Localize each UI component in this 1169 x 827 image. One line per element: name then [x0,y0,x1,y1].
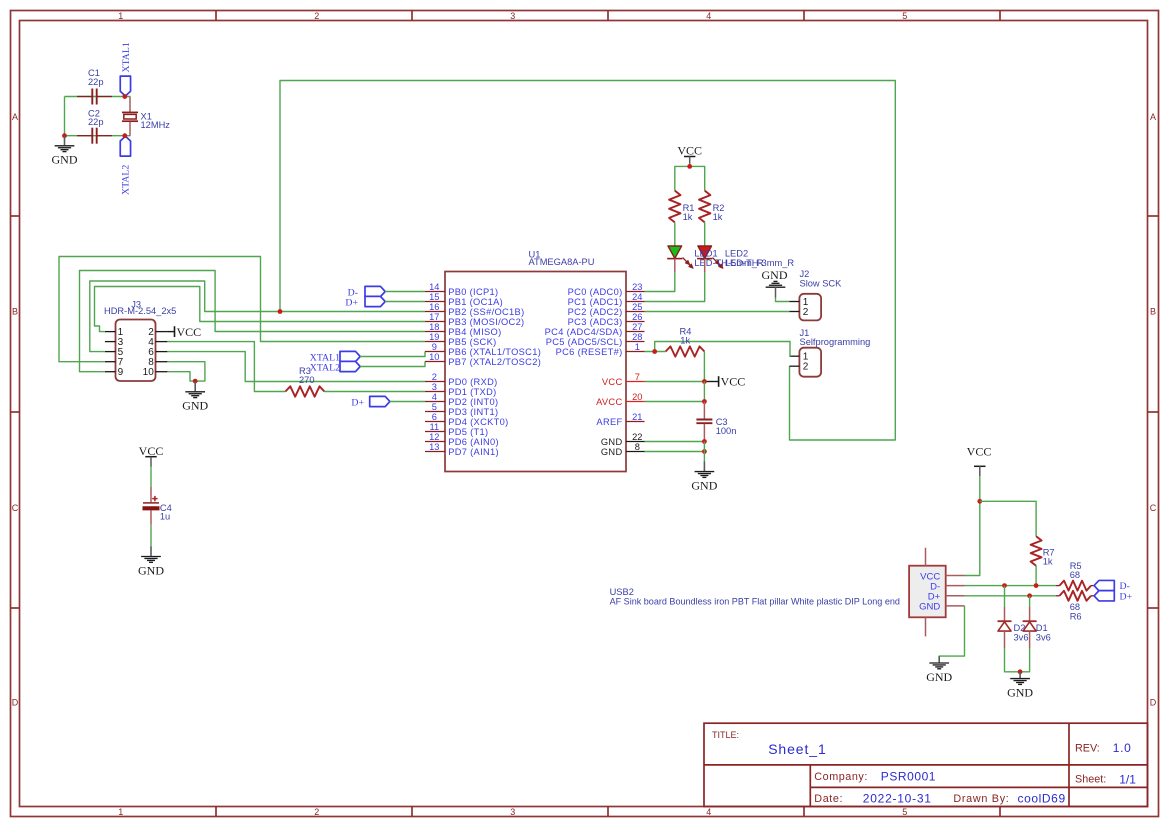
svg-text:PD4 (XCKT0): PD4 (XCKT0) [448,417,508,427]
label LED1 LED2 overlapped values [694,249,794,269]
svg-text:1: 1 [635,342,640,352]
pin 3 PD1 [425,382,497,397]
svg-text:13: 13 [429,442,439,452]
svg-text:27: 27 [632,322,642,332]
pin 21 AREF [596,412,644,427]
junction crystal bottom [122,133,127,138]
svg-text:17: 17 [429,312,439,322]
svg-text:VCC: VCC [602,377,623,387]
svg-text:D: D [1150,697,1157,707]
ground GND below C4 [138,546,164,577]
svg-text:VCC: VCC [967,445,992,459]
junction D- at D2 [1002,583,1007,588]
svg-text:PC5 (ADC5/SCL): PC5 (ADC5/SCL) [546,337,623,347]
svg-text:10: 10 [143,367,155,378]
svg-text:3: 3 [510,807,515,817]
svg-text:1k: 1k [1043,556,1053,566]
svg-text:C: C [12,503,19,513]
junction D- at R7 [1034,583,1039,588]
svg-text:PB7 (XTAL2/TOSC2): PB7 (XTAL2/TOSC2) [448,357,541,367]
svg-text:20: 20 [632,392,642,402]
svg-text:D: D [12,697,19,707]
svg-text:LED2: LED2 [725,249,748,259]
svg-text:REV:: REV: [1075,743,1100,755]
power flag VCC above R1 R2 [677,144,702,167]
svg-text:VCC: VCC [177,325,202,339]
svg-text:Selfprogramming: Selfprogramming [800,337,871,347]
svg-text:1: 1 [118,11,123,21]
svg-text:PC0 (ADC0): PC0 (ADC0) [568,287,623,297]
svg-text:100n: 100n [716,426,737,436]
ground GND below C3 [691,462,717,493]
svg-text:A: A [1150,112,1156,122]
svg-text:1.0: 1.0 [1113,741,1132,755]
port XTAL2 to PB7 [310,361,425,373]
svg-text:2: 2 [432,372,437,382]
zener diode D1 3v6 [1023,596,1051,648]
wire VCC to AVCC row [703,382,705,402]
svg-text:28: 28 [632,332,642,342]
svg-text:VCC: VCC [677,144,702,158]
svg-text:2: 2 [314,11,319,21]
svg-text:PC2 (ADC2): PC2 (ADC2) [568,307,623,317]
svg-text:Sheet_1: Sheet_1 [768,741,826,757]
svg-text:23: 23 [632,282,642,292]
wire LED1 to PC0 pin 23 [645,259,675,292]
svg-text:PC1 (ADC1): PC1 (ADC1) [568,297,623,307]
pin 1 PC6 (RESET#) [556,342,645,357]
junction D+ at D1 [1027,593,1032,598]
svg-text:D1: D1 [1036,623,1048,633]
pin 10 PB7 [425,352,541,367]
wire R2 to LED2 [704,222,706,246]
pin 20 AVCC [596,392,644,407]
wire zeners to common GND [1005,648,1030,672]
MCU U1 ATMEGA8A-PU [425,250,645,472]
svg-text:5: 5 [902,807,907,817]
svg-text:A: A [12,112,18,122]
junction PB2 / selfprogramming [278,309,283,314]
svg-text:PB1 (OC1A): PB1 (OC1A) [448,297,503,307]
svg-text:22p: 22p [88,77,104,87]
wire PC6 reset to R4 and J1 pin1 [645,342,791,357]
svg-text:22: 22 [632,432,642,442]
svg-text:PD2 (INT0): PD2 (INT0) [448,397,498,407]
svg-text:ATMEGA8A-PU: ATMEGA8A-PU [529,257,595,267]
svg-text:XTAL2: XTAL2 [121,165,132,195]
svg-text:3v6: 3v6 [1036,633,1051,643]
svg-text:1k: 1k [683,212,693,222]
label 68 R6 [1070,602,1082,621]
wire VCC to USB VCC pin [965,501,980,575]
pin 8 GND [601,442,645,457]
power flag VCC at J3 pin 2 [167,325,201,339]
svg-text:2022-10-31: 2022-10-31 [863,791,932,805]
pin 26 PC3 (ADC3) [568,312,645,327]
wire D+ row [965,595,1057,597]
svg-text:D+: D+ [351,397,364,408]
junction J3 ground [193,379,198,384]
svg-text:1u: 1u [160,512,170,522]
svg-text:PB4 (MISO): PB4 (MISO) [448,327,501,337]
wire C4 to GND [150,525,152,547]
connector J2 Slow SCK [789,269,842,320]
port D+ (usb) [1094,591,1132,603]
svg-text:Slow SCK: Slow SCK [800,278,843,288]
svg-text:19: 19 [429,332,439,342]
pin 7 VCC [602,372,645,387]
ground GND at J2 pin1 (flipped) [762,268,790,302]
wire VCC to R1 R2 tops [675,166,705,190]
svg-text:PD0 (RXD): PD0 (RXD) [448,377,497,387]
svg-text:GND: GND [926,670,952,684]
svg-text:Date:: Date: [814,793,843,805]
wire R4 to VCC row [703,352,705,382]
wire crystal bottom net XTAL2 [65,135,131,137]
svg-text:PD1 (TXD): PD1 (TXD) [448,387,496,397]
junction VCC pin7 [702,379,707,384]
svg-text:VCC: VCC [139,444,164,458]
resistor R7 1k [1031,536,1055,566]
svg-text:LED1: LED1 [694,249,717,259]
svg-text:HDR-M-2.54_2x5: HDR-M-2.54_2x5 [104,306,176,316]
svg-text:B: B [12,307,18,317]
wire J3 pin5 to U1 PB2 (SS#) [90,281,425,352]
svg-text:TITLE:: TITLE: [712,730,739,740]
svg-text:14: 14 [429,282,439,292]
pin 2 PD0 [425,372,498,387]
svg-text:1k: 1k [713,212,723,222]
svg-text:5: 5 [432,402,437,412]
junction zener GND [1018,669,1023,674]
svg-text:3: 3 [510,11,515,21]
pin 17 PB3 [425,312,524,327]
svg-text:3v6: 3v6 [1014,633,1029,643]
svg-text:PSR0001: PSR0001 [881,769,936,783]
LED LED1 (green) [667,246,693,268]
wire VCC pin7 row [645,381,705,383]
pin 27 PC4 (ADC4/SDA) [545,322,645,337]
svg-text:PB2 (SS#/OC1B): PB2 (SS#/OC1B) [448,307,524,317]
svg-text:R6: R6 [1070,611,1082,621]
svg-text:68: 68 [1070,570,1080,580]
connector J3 HDR-M-2.54_2x5 [104,299,176,381]
svg-text:AF Sink board Boundless iron P: AF Sink board Boundless iron PBT Flat pi… [610,596,900,606]
resistor R3 270 [285,366,324,397]
port D+ to PD2 (INT0) [351,396,425,408]
pin 11 PD5 [425,422,488,437]
svg-text:D+: D+ [345,297,358,308]
wire J3 pin8 to GND [167,362,205,381]
svg-text:9: 9 [118,367,124,378]
svg-text:18: 18 [429,322,439,332]
connector J1 Selfprogramming [789,328,870,377]
wire R1 to LED1 [674,222,676,246]
junction crystal bottom-left [62,133,67,138]
wire crystal top net XTAL1 [65,97,131,136]
pin 6 PD4 [425,412,509,427]
svg-text:GND: GND [601,447,623,457]
ground GND crystal [52,136,78,167]
svg-text:22p: 22p [88,117,104,127]
wire J3 pin1 to U1 PB3 (MOSI) [95,287,426,332]
svg-text:VCC: VCC [721,375,746,389]
pin 5 PD3 [425,402,498,417]
svg-text:Drawn By:: Drawn By: [953,793,1009,805]
capacitor C4 1u polarized [143,487,172,525]
wire VCC to R7 [980,501,1036,536]
svg-text:XTAL2: XTAL2 [310,363,340,374]
svg-text:PB3 (MOSI/OC2): PB3 (MOSI/OC2) [448,317,524,327]
label R5 68 [1070,561,1082,580]
junction reset net [652,349,657,354]
svg-text:PC6 (RESET#): PC6 (RESET#) [556,347,623,357]
junction crystal top [122,94,127,99]
svg-text:PD5 (T1): PD5 (T1) [448,427,488,437]
svg-text:11: 11 [429,422,439,432]
pin 12 PD6 [425,432,499,447]
junction VCC top [687,164,692,169]
pin 23 PC0 (ADC0) [568,282,645,297]
power flag VCC at USB [967,445,992,502]
pin 13 PD7 [425,442,499,457]
junction GND22 [702,439,707,444]
port D- to PB0 [348,286,425,298]
svg-text:8: 8 [635,442,640,452]
wire J3 pin7 to U1 PB5 (SCK) [59,257,425,362]
svg-text:24: 24 [632,292,642,302]
svg-text:GND: GND [52,153,78,167]
pin 19 PB5 [425,332,497,347]
wire LED2 to PC1 pin 24 [645,259,705,302]
svg-text:1: 1 [118,807,123,817]
ground GND zeners [1007,672,1033,700]
svg-text:GND: GND [601,437,623,447]
resistor R2 1k [699,191,724,223]
port XTAL1 to PB6 [310,351,425,363]
svg-text:12: 12 [429,432,439,442]
crystal X1 12MHz [122,97,170,136]
wire J3 pin10 to GND [167,372,195,381]
ground GND at J3 [182,381,208,413]
svg-text:AVCC: AVCC [596,397,622,407]
svg-text:1/1: 1/1 [1119,772,1136,786]
pin 22 GND [601,432,645,447]
svg-text:C: C [1150,503,1157,513]
svg-text:GND: GND [919,602,940,613]
svg-text:GND: GND [182,399,208,413]
resistor R6 68 [1056,591,1094,601]
resistor R5 68 [1056,581,1094,591]
svg-text:5: 5 [902,11,907,21]
wire PB2 net to J1 pin2 (selfprogramming loop) [280,81,895,441]
svg-text:Company:: Company: [814,771,868,783]
ground GND usb [926,656,952,684]
svg-text:26: 26 [632,312,642,322]
pin 9 PB6 [425,342,541,357]
junction GND8 [702,449,707,454]
svg-text:PB5 (SCK): PB5 (SCK) [448,337,496,347]
svg-text:7: 7 [635,372,640,382]
svg-text:XTAL1: XTAL1 [121,42,132,72]
wire PC2 pin25 to J2 pin2 [645,311,790,313]
svg-text:GND: GND [138,563,164,577]
LED LED2 (red) [697,246,723,268]
port D- (usb) [1094,580,1130,592]
svg-text:4: 4 [706,807,711,817]
zener diode D2 3v6 [998,586,1029,648]
svg-text:4: 4 [706,11,711,21]
port D+ to PB1 [345,296,425,308]
wire AVCC pin20 row [645,401,705,403]
resistor R4 1k [666,327,705,357]
component USB2 connector [610,548,965,637]
pin 25 PC2 (ADC2) [568,302,645,317]
svg-text:2: 2 [803,362,809,373]
svg-text:AREF: AREF [596,417,622,427]
wire GND pin8 row [645,451,705,453]
svg-text:GND: GND [1007,686,1033,700]
wire D- row [965,585,1057,587]
svg-text:6: 6 [432,412,437,422]
pin 16 PB2 [425,302,525,317]
pin 18 PB4 [425,322,502,337]
pin 4 PD2 [425,392,498,407]
pin 24 PC1 (ADC1) [568,292,645,307]
pin 14 PB0 [425,282,498,297]
svg-text:21: 21 [632,412,642,422]
svg-text:2: 2 [803,307,809,318]
power flag VCC at pin7 [704,375,745,389]
port XTAL1 (top) [120,42,132,96]
svg-text:270: 270 [299,375,315,385]
svg-text:Sheet:: Sheet: [1075,774,1106,786]
pin 28 PC5 (ADC5/SCL) [546,332,645,347]
wire GND pin22 row [645,441,705,443]
capacitor C2 [77,109,112,144]
resistor R1 1k [669,191,694,223]
junction USB VCC [977,499,982,504]
svg-text:2: 2 [314,807,319,817]
svg-text:3: 3 [432,382,437,392]
wire J3 pin4 to R3 / U1 PD1 [167,342,425,392]
svg-text:10: 10 [429,352,439,362]
svg-text:PD3 (INT1): PD3 (INT1) [448,407,498,417]
capacitor C1 [77,68,112,104]
svg-text:LED-TH-3mm_R: LED-TH-3mm_R [725,258,794,268]
wire to GND symbol below C3 [703,442,705,462]
junction AVCC [702,399,707,404]
svg-text:15: 15 [429,292,439,302]
svg-text:GND: GND [691,479,717,493]
wire J3 pin6 to U1 PD0 (RXD) [167,352,425,382]
svg-text:1k: 1k [680,336,690,346]
svg-text:16: 16 [429,302,439,312]
svg-text:PC3 (ADC3): PC3 (ADC3) [568,317,623,327]
port XTAL2 (bottom) [120,136,131,195]
svg-text:GND: GND [762,268,788,282]
svg-text:9: 9 [432,342,437,352]
svg-text:4: 4 [432,392,437,402]
pin 15 PB1 [425,292,503,307]
svg-text:coolD69: coolD69 [1018,791,1066,805]
wire R7 to D- row [1035,566,1037,586]
svg-text:PD7 (AIN1): PD7 (AIN1) [448,447,499,457]
svg-text:PB6 (XTAL1/TOSC1): PB6 (XTAL1/TOSC1) [448,347,541,357]
svg-text:PD6 (AIN0): PD6 (AIN0) [448,437,499,447]
wire J3 pin9 to U1 PB4 (MISO) [80,271,426,372]
svg-text:PC4 (ADC4/SDA): PC4 (ADC4/SDA) [545,327,623,337]
wire USB GND pin to ground [939,606,964,662]
svg-text:B: B [1150,307,1156,317]
capacitor C3 100n [696,402,736,442]
svg-text:25: 25 [632,302,642,312]
svg-text:PB0 (ICP1): PB0 (ICP1) [448,287,498,297]
title block [704,723,1148,806]
svg-text:D+: D+ [1120,591,1133,602]
power flag VCC above C4 [139,444,164,487]
svg-text:12MHz: 12MHz [141,120,171,130]
